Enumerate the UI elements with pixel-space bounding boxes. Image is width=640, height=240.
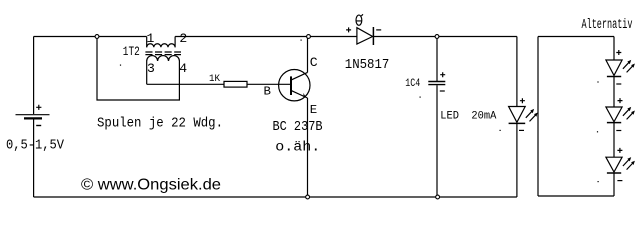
LED D3 triangle (606, 60, 622, 75)
LED D3 cathode bar (607, 76, 621, 78)
wire emitter to bottom rail (307, 98, 309, 197)
alternative branch bottom rail (538, 195, 614, 197)
label diode theta mark (356, 14, 363, 25)
wire LED branch bottom (516, 123, 518, 197)
svg-text:B: B (264, 85, 271, 99)
wire alt LED string segment 2 (613, 77, 615, 108)
svg-text:o.äh.: o.äh. (275, 139, 320, 155)
LED D2 minus sign (519, 129, 524, 131)
junction node diode cathode top (435, 35, 439, 39)
svg-text:2: 2 (179, 31, 187, 46)
LED D5 triangle (606, 157, 622, 172)
resistor 1K body (224, 81, 247, 87)
LED D3 minus sign (616, 83, 621, 85)
battery plus sign (36, 105, 41, 110)
wire bottom rail (34, 196, 517, 198)
transistor Q1 collector diagonal (291, 72, 307, 80)
LED D4 minus sign (616, 130, 621, 132)
capacitor C4 bottom lead (436, 85, 438, 197)
transformer T2 core line lower (145, 54, 181, 56)
LED D4 cathode bar (607, 122, 621, 124)
svg-text:Alternativ: Alternativ (582, 17, 633, 33)
svg-text:E: E (310, 103, 317, 117)
origin dot LED D4 (597, 131, 598, 132)
wire collector to top rail (307, 37, 309, 73)
wire top rail from diode to LED branch corner (373, 36, 517, 38)
origin dot capacitor (420, 97, 421, 98)
svg-text:C: C (310, 55, 318, 70)
svg-text:1: 1 (147, 31, 155, 46)
transformer T2 pin 2 lead (174, 37, 176, 48)
wire alt LED string segment 1 (613, 37, 615, 61)
LED D2 cathode bar (509, 122, 526, 124)
LED D4 arrows (623, 109, 633, 120)
alternative branch top rail (538, 36, 614, 38)
svg-text:4: 4 (179, 61, 187, 76)
wire alt LED string segment 4 (613, 173, 615, 196)
wire resistor to base (247, 83, 291, 85)
wire left rail battery bottom (33, 119, 35, 197)
junction node capacitor bottom (436, 195, 440, 199)
wire LED branch top (516, 37, 518, 107)
LED D3 arrows (623, 62, 633, 73)
LED D5 arrows (623, 159, 633, 170)
transformer T2 pin 1 lead (146, 37, 148, 48)
svg-text:1N5817: 1N5817 (345, 57, 390, 73)
wire left rail battery top (33, 37, 35, 115)
svg-text:1T2: 1T2 (123, 44, 140, 59)
origin dot LED D2 (500, 130, 501, 131)
wire pin 3 to resistor (147, 83, 224, 85)
svg-text:0,5-1,5V: 0,5-1,5V (6, 138, 64, 154)
transformer T2 secondary winding (147, 56, 180, 61)
svg-text:1K: 1K (209, 73, 221, 85)
diode D1 triangle (357, 28, 373, 44)
battery negative plate (24, 117, 42, 119)
battery positive plate (16, 114, 50, 116)
transistor Q1 circle (279, 70, 310, 101)
wire top rail from pin 2 to diode (175, 36, 357, 38)
wire alt LED string segment 3 (613, 123, 615, 158)
LED D5 plus sign (617, 148, 622, 153)
origin dot collector junction (301, 40, 302, 41)
LED D2 plus sign (520, 98, 525, 103)
LED D5 cathode bar (607, 172, 621, 174)
svg-text:3: 3 (147, 61, 155, 76)
capacitor C4 top plate (428, 81, 445, 83)
junction node collector top (307, 35, 311, 39)
capacitor C4 top lead (436, 37, 438, 82)
svg-text:© www.Ongsiek.de: © www.Ongsiek.de (81, 177, 221, 194)
battery minus sign (36, 125, 41, 127)
wire pin 4 down left and up to top rail junction (97, 37, 179, 101)
diode D1 cathode bar (372, 27, 374, 45)
svg-text:BC 237B: BC 237B (273, 119, 323, 135)
alternative branch left rail (537, 37, 539, 197)
junction node top left (95, 35, 99, 39)
transformer T2 primary winding (147, 44, 175, 48)
LED D5 minus sign (617, 180, 622, 182)
LED D2 triangle (509, 107, 526, 123)
origin dot LED D5 (598, 181, 599, 182)
LED D4 plus sign (618, 98, 623, 103)
junction node emitter bottom (306, 195, 310, 199)
transistor Q1 emitter diagonal (291, 91, 307, 98)
svg-text:Spulen je 22 Wdg.: Spulen je 22 Wdg. (97, 115, 223, 131)
transistor Q1 base bar (290, 76, 292, 95)
diode minus sign (376, 29, 381, 31)
capacitor minus sign (440, 90, 445, 92)
transformer T2 pin 3 lead (146, 61, 148, 84)
origin dot LED D3 (597, 81, 598, 82)
svg-text:LED 20mA: LED 20mA (440, 111, 497, 123)
transistor Q1 emitter arrow (303, 93, 306, 98)
LED D4 triangle (606, 107, 622, 122)
svg-text:1C4: 1C4 (405, 78, 420, 90)
diode plus sign (346, 27, 351, 32)
origin dot transformer (120, 65, 121, 66)
LED D3 plus sign (616, 50, 621, 55)
capacitor C4 bottom plate (428, 84, 445, 86)
LED D2 arrows (526, 111, 536, 122)
transformer T2 core line upper (145, 51, 181, 53)
capacitor plus sign (440, 72, 445, 77)
wire top rail from battery to pin 1 (34, 36, 147, 38)
